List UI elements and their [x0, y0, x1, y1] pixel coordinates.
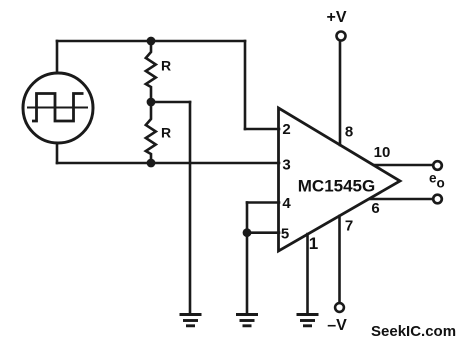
svg-text:10: 10 [374, 144, 391, 161]
wire: pin 2 lead [245, 128, 279, 131]
wire: pin 4 lead [247, 201, 279, 204]
square-wave source G1 [23, 73, 93, 143]
wire: junction to ground 2 vertical [246, 233, 249, 314]
output terminal pin 6 [433, 195, 442, 204]
svg-text:3: 3 [282, 157, 290, 174]
resistor R2 [146, 102, 156, 163]
wire: vertical drop to pin 2 [244, 41, 247, 129]
wire: pin 1 vertical to ground 3 [306, 234, 309, 314]
svg-text:R: R [161, 58, 171, 74]
svg-text:7: 7 [345, 218, 353, 235]
resistor R1 [146, 41, 156, 102]
svg-text:SeekIC.com: SeekIC.com [371, 323, 456, 340]
svg-text:–V: –V [327, 317, 347, 334]
wire: source bottom vertical [56, 143, 59, 163]
junction dot: between R1 and R2 [147, 98, 156, 107]
wire: pin 5 lead [247, 231, 279, 234]
wire: pin 10 output lead [374, 164, 433, 167]
+V terminal [337, 32, 346, 41]
svg-text:MC1545G: MC1545G [298, 177, 375, 196]
junction dot: pin4/pin5 tie [243, 228, 252, 237]
svg-text:+V: +V [326, 9, 346, 26]
ground 3 [297, 315, 319, 326]
wire: pin 6 output lead [370, 198, 433, 201]
wire: pin 4 to pin 5 vertical [246, 203, 249, 233]
svg-text:1: 1 [309, 234, 318, 253]
wire: pin 8 vertical from +V [339, 41, 342, 145]
ground 2 [236, 315, 258, 326]
wire: vertical drop to ground 1 [189, 102, 192, 314]
wire: source top vertical [56, 41, 59, 73]
output terminal pin 10 [433, 161, 442, 170]
op-amp U1 MC1545G triangle [279, 108, 401, 251]
svg-text:4: 4 [282, 195, 291, 212]
-V terminal [335, 303, 344, 312]
svg-text:R: R [161, 125, 171, 141]
wire: pin 7 vertical to -V [338, 216, 341, 303]
svg-text:2: 2 [282, 121, 290, 138]
wire: bottom rail to pin 3 [57, 162, 279, 165]
svg-text:8: 8 [345, 124, 353, 141]
svg-text:5: 5 [281, 226, 289, 243]
ground 1 [180, 315, 202, 326]
junction dot: top rail / R1 [147, 37, 156, 46]
svg-text:6: 6 [371, 200, 379, 217]
wire: top rail [57, 40, 245, 43]
junction dot: bottom rail / R2 [147, 159, 156, 168]
wire: mid junction to ground drop horizontal [151, 101, 190, 104]
